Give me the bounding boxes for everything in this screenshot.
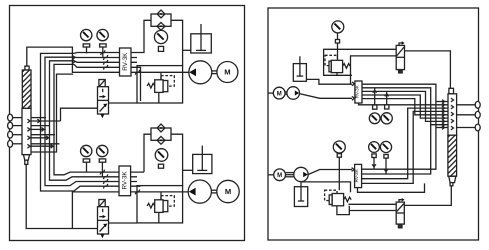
wire bus main 2: [362, 88, 431, 174]
wire main pressure top: [27, 47, 189, 72]
tank T4: [294, 182, 307, 207]
relief valve RL1: [147, 80, 168, 93]
junction chevrons at cylinder: [442, 100, 445, 130]
wire crossing marks bottom: [103, 174, 107, 188]
wire top bus 4: [74, 64, 141, 101]
gauge PG7 connector: [335, 40, 339, 44]
svg-text:M: M: [277, 91, 282, 97]
wire gauge PG11 stem: [385, 158, 387, 174]
pump PU2: [188, 180, 211, 203]
gauge PG5 connector: [99, 159, 106, 162]
wire motor M4 supply: [268, 174, 274, 176]
wire main pressure bottom (cyl tip): [26, 164, 97, 228]
wire from port P4: [12, 143, 22, 145]
wire bus 5 staircase (pump feed): [362, 99, 448, 115]
wire riser B: [45, 57, 137, 185]
valve unit RV-3K (right top manifold): [354, 81, 362, 103]
gauge PG11 connector: [384, 155, 388, 159]
directional valve DV4 drain box: [398, 224, 402, 228]
wire relief RL3 drain: [336, 73, 338, 76]
wire relief RL2 feed: [160, 192, 162, 200]
svg-text:RV-3K: RV-3K: [354, 168, 359, 182]
wire from port P3: [12, 134, 22, 136]
pressure gauge PG10: [369, 142, 380, 153]
wire port line 1: [31, 117, 46, 119]
pressure gauge PG9: [381, 113, 392, 124]
port P4 on left border: [8, 140, 13, 147]
wire pump PU3 outlet: [299, 94, 352, 99]
wire riser R2 with tap 111.4: [362, 111, 448, 183]
hydraulic cylinder CY2 hatched body: [448, 135, 457, 176]
directional valve DV4 body: [396, 202, 404, 224]
left panel border frame: [10, 6, 245, 241]
directional valve DV4 actuator arrow: [399, 198, 405, 202]
wire to port Q2: [457, 114, 476, 116]
wire tap 127.5 (to port Q3): [436, 127, 448, 129]
power unit enclosure E1: [137, 66, 183, 103]
hydraulic cylinder CY2 bottom plug: [449, 176, 456, 182]
svg-text:M: M: [224, 68, 230, 77]
wire stub block to riser A: [31, 120, 61, 122]
pressure gauge PG4: [81, 145, 92, 156]
svg-text:RV-3K: RV-3K: [122, 171, 129, 190]
wire bus main 1 (top manifold to bottom manifold): [362, 84, 436, 169]
wire gauge PG7 stem: [337, 33, 339, 60]
valve unit RV-3K (bottom): [119, 166, 131, 196]
pump PU4: [294, 167, 308, 181]
wire bottom pump line: [72, 192, 189, 229]
wire riser R1 with tap 108.1: [362, 108, 448, 179]
wire motor M3 supply: [268, 92, 273, 94]
pressure gauge PG1: [81, 29, 92, 40]
wire enclosure top line to valve DV3: [324, 49, 397, 75]
electric motor M2: [217, 180, 239, 202]
wire CY2 tip to valve DV4: [404, 186, 451, 206]
wire gauge PG5 stem: [101, 162, 103, 177]
directional valve DV1 actuator: [99, 80, 105, 87]
wire gauge PG12 stem: [338, 157, 340, 190]
check valve CV2: [157, 22, 165, 30]
gauge PG10 connector: [372, 154, 376, 158]
electric motor M3: [273, 87, 285, 99]
valve unit RV-3K (right bottom manifold): [354, 164, 362, 187]
relief valve RL2 pilot box (dashed): [161, 196, 174, 207]
wire from port P2: [12, 125, 22, 127]
wire relief drain: [158, 92, 160, 103]
wire riser C: [50, 61, 138, 180]
pressure gauge PG11: [380, 141, 391, 152]
port P1 on left border: [8, 114, 13, 121]
directional valve DV2 actuator: [99, 200, 105, 207]
wire crossing marks: [103, 55, 107, 70]
hydraulic cylinder CY2 valve block: [448, 94, 457, 135]
gauge PG6 connector: [158, 164, 163, 168]
hydraulic cylinder CY2 cap: [449, 88, 454, 94]
wire filter outlet: [171, 20, 183, 65]
pressure gauge PG7: [332, 21, 344, 33]
electric motor M4: [274, 169, 286, 181]
wire port line 4: [31, 143, 60, 145]
wire top bus 1: [74, 20, 151, 53]
wire filter F2 feed: [144, 134, 151, 172]
pressure gauge PG3: [154, 30, 167, 43]
check valve CV4: [157, 136, 165, 144]
relief valve RL4 pilot box (dashed): [325, 190, 337, 200]
coupling shaft 3: [285, 92, 287, 94]
wire filter F2 outlet: [171, 134, 183, 185]
port Q3 on right border: [475, 124, 480, 131]
wire bus 3 staircase: [362, 91, 448, 121]
gauge PG3 connector: [158, 46, 163, 51]
wire port line 3: [31, 134, 55, 136]
wire gauge PG10 stem: [373, 158, 375, 170]
svg-text:M: M: [277, 173, 282, 179]
wire stub block to riser B: [31, 128, 45, 130]
directional valve DV1 body: [98, 87, 109, 114]
check valve CV3: [157, 124, 165, 132]
port Q2 on right border: [475, 111, 480, 118]
relief valve RL3 pilot box (dashed): [325, 55, 337, 65]
svg-text:RV-3K: RV-3K: [354, 84, 359, 98]
coupling shaft: [212, 71, 217, 74]
relief valve RL3: [329, 60, 350, 72]
port P2 on left border: [8, 122, 13, 129]
wire tap 104.8 (manifold elbow, to port Q1): [359, 103, 448, 105]
directional valve DV1 drain arrow: [100, 114, 104, 118]
wire top bus 2: [74, 56, 137, 58]
wire relief feed: [160, 72, 162, 80]
directional valve DV3 body: [396, 45, 404, 69]
pressure gauge PG6: [155, 149, 168, 162]
wire stub block to riser C: [31, 137, 50, 139]
directional valve DV3 actuator arrow: [399, 41, 405, 45]
check valve CV1: [157, 10, 165, 18]
pressure gauge PG2: [97, 29, 108, 40]
wire tank T3 to manifold: [306, 79, 352, 84]
filter F1 housing: [151, 14, 171, 26]
relief valve RL1 pilot box (dashed): [161, 76, 174, 87]
wire riser D: [54, 64, 144, 174]
wire gauge PG9 stem: [386, 91, 388, 104]
relief valve RL2: [147, 200, 168, 213]
hydraulic cylinder CY1 hatched body: [22, 70, 31, 108]
pump PU3: [287, 87, 300, 100]
wire gauge PG2 stem: [102, 47, 104, 57]
coupling shaft 2: [211, 190, 216, 193]
port P3 on left border: [8, 131, 13, 138]
relief valve RL4: [329, 194, 351, 206]
gauge PG2 connector: [100, 44, 107, 47]
pressure gauge PG5: [97, 145, 108, 156]
wire tank T2 feed: [183, 169, 193, 171]
coupling shaft 4: [286, 173, 294, 177]
right panel border frame: [268, 8, 479, 240]
wire pump PU4 outlet: [308, 170, 352, 175]
wire gauge PG4 stem: [86, 162, 88, 172]
valve unit RV-3K (top): [120, 48, 132, 76]
pump PU1: [189, 61, 212, 84]
wire bus 4 staircase: [362, 95, 448, 118]
svg-text:M: M: [225, 187, 231, 196]
wire DV3 to cylinder cap: [405, 51, 451, 88]
electric motor M1: [217, 62, 238, 83]
directional valve DV3 drain box: [399, 70, 403, 73]
wire stub block to riser D: [31, 145, 54, 147]
wire bottom stub line: [358, 183, 425, 192]
wire from port P1: [12, 117, 22, 119]
wire port line 2: [31, 125, 50, 127]
wire gauge PG1 stem: [86, 47, 88, 53]
svg-text:RV-3K: RV-3K: [122, 52, 129, 71]
wire top bus 3: [74, 61, 137, 63]
hydraulic cylinder CY1 bottom plug: [23, 155, 29, 161]
gauge PG12 connector: [337, 154, 341, 158]
gauge PG1 connector: [83, 44, 90, 47]
wire drain stub to valve DV4: [349, 210, 396, 212]
hydraulic cylinder CY1 cap: [25, 66, 29, 70]
tank T1: [191, 24, 212, 53]
wire tap 101.5: [436, 101, 448, 103]
wire DV1 left port: [61, 108, 98, 121]
gauge PG8 connector: [373, 105, 377, 109]
directional valve DV2 drain arrow: [100, 234, 104, 238]
tank T3: [293, 56, 306, 81]
relief valve RL4 drain stub: [337, 206, 349, 215]
directional valve DV2 body: [98, 207, 109, 234]
wire riser A (cyl to top bus1 / bottom bus4): [41, 53, 141, 191]
wire gauge PG8 stem: [374, 88, 376, 105]
wire tank T4 pilot line: [301, 182, 351, 192]
port Q1 on right border: [475, 101, 480, 108]
wire relief RL2 drain: [158, 212, 160, 223]
wire drain stub: [31, 74, 73, 152]
wire tap 124.7: [431, 124, 448, 126]
power unit enclosure E2: [137, 186, 183, 223]
hydraulic cylinder CY1 valve block: [22, 108, 31, 154]
wire tank feed: [183, 49, 191, 51]
gauge PG9 connector: [385, 105, 389, 109]
gauge PG4 connector: [83, 159, 90, 162]
wire DV2 right port: [109, 222, 138, 224]
pressure gauge PG12: [333, 141, 345, 153]
wire relief RL4 to valve DV4: [348, 203, 396, 205]
filter F2 housing: [151, 128, 171, 140]
wire DV1 right port: [109, 102, 138, 104]
pressure gauge PG8: [369, 113, 380, 124]
wire manifold to valve DV3: [351, 56, 397, 84]
tank T2: [193, 146, 212, 174]
